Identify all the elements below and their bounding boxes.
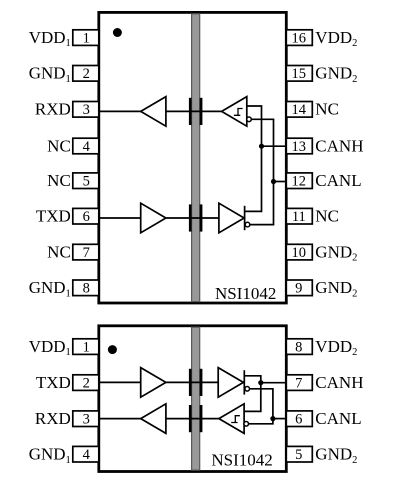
wire U2 RXD isolation crossing: [166, 418, 219, 420]
wire U2 receiver non-inverting input to node CANH: [244, 383, 261, 412]
wire U1 TXD isolation crossing: [166, 217, 219, 219]
U1 pin-1 marker dot: [113, 28, 122, 37]
U1 pin 8 box: [73, 280, 99, 297]
U2 isolation capacitor plates (RXD channel): [189, 405, 203, 432]
IC U2 body (NSI1042, 8-pin package): [99, 326, 286, 472]
svg-text:4: 4: [83, 139, 91, 155]
svg-text:2: 2: [83, 376, 90, 392]
svg-text:CANH: CANH: [315, 373, 363, 392]
junction node CANL (U2): [270, 416, 275, 421]
U1 pin 7 box: [73, 244, 99, 261]
svg-text:10: 10: [292, 245, 307, 261]
svg-text:16: 16: [292, 31, 307, 47]
wire U1 receiver inverting input to node CANL: [251, 119, 273, 181]
wire node CANH to U1 pin13: [262, 145, 287, 147]
U1 pin 2 box: [73, 66, 99, 83]
svg-text:TXD: TXD: [36, 373, 71, 392]
svg-text:8: 8: [83, 281, 90, 297]
U2 isolation barrier: [192, 327, 200, 470]
svg-text:NC: NC: [315, 207, 339, 226]
buffer U1 TXD input stage (left side): [141, 203, 166, 233]
svg-text:3: 3: [83, 412, 90, 428]
svg-text:GND2: GND2: [315, 278, 357, 299]
wire U1 driver non-inverting output to node CANH: [245, 146, 262, 211]
U2 pin 7 box: [286, 375, 312, 392]
U2 pin-1 marker dot: [108, 345, 117, 354]
U1 pin 13 box: [286, 138, 312, 155]
svg-text:4: 4: [83, 447, 91, 463]
svg-text:VDD1: VDD1: [29, 337, 71, 358]
inverting input bubble of U1 CAN receiver: [247, 117, 252, 122]
driver U1 CAN output driver: [219, 203, 244, 233]
IC U1 body (NSI1042, 16-pin package): [99, 12, 286, 303]
comparator U2 CAN receiver (Schmitt): [219, 404, 244, 434]
svg-text:14: 14: [292, 102, 307, 118]
U1 pin 1 box: [73, 30, 99, 47]
svg-text:TXD: TXD: [36, 207, 71, 226]
wire U2 pin3 RXD to receiver output: [99, 418, 141, 420]
buffer U2 TXD input stage (left side): [141, 368, 166, 398]
svg-text:5: 5: [295, 447, 302, 463]
wire U1 pin6 TXD to driver input: [99, 217, 141, 219]
junction node CANH (U1): [259, 144, 264, 149]
U2 pin 1 box: [73, 339, 99, 356]
U1 pin 9 box: [286, 280, 312, 297]
U1 pin 4 box: [73, 138, 99, 155]
svg-text:GND2: GND2: [315, 243, 357, 264]
U1 pin 3 box: [73, 102, 99, 119]
U1 pin 5 box: [73, 173, 99, 190]
svg-text:6: 6: [83, 209, 90, 225]
svg-text:NC: NC: [315, 100, 339, 119]
svg-text:NSI1042: NSI1042: [211, 450, 272, 469]
buffer U2 RXD output driver (left side): [141, 404, 166, 434]
U2 pin 5 box: [286, 446, 312, 463]
wire node CANH to U2 pin7: [261, 382, 287, 384]
U2 pin 4 box: [73, 446, 99, 463]
U2 CAN driver differential output bar: [243, 370, 245, 394]
svg-text:CANL: CANL: [315, 409, 361, 428]
wire U1 RXD isolation crossing: [166, 110, 222, 112]
U1 isolation capacitor plates (RXD channel): [189, 98, 203, 125]
U1 pin 11 box: [286, 208, 312, 225]
svg-text:GND1: GND1: [29, 278, 71, 299]
svg-text:13: 13: [292, 139, 307, 155]
svg-text:CANH: CANH: [315, 136, 363, 155]
svg-text:1: 1: [83, 31, 90, 47]
U2 isolation capacitor plates (TXD channel): [189, 369, 203, 396]
U1 pin 10 box: [286, 244, 312, 261]
svg-text:VDD2: VDD2: [315, 28, 357, 49]
wire U2 TXD isolation crossing: [166, 381, 218, 383]
svg-text:1: 1: [83, 340, 90, 356]
svg-text:RXD: RXD: [35, 100, 71, 119]
wire U2 driver non-inverting output to node CANH: [244, 376, 260, 383]
svg-text:8: 8: [295, 340, 302, 356]
U1 isolation barrier: [192, 14, 200, 302]
wire U1 pin3 RXD to receiver output: [99, 110, 141, 112]
svg-text:15: 15: [292, 66, 307, 82]
svg-text:NSI1042: NSI1042: [215, 284, 276, 303]
buffer U1 RXD output driver (left side): [141, 97, 166, 127]
U1 pin 6 box: [73, 208, 99, 225]
U1 pin 12 box: [286, 173, 312, 190]
svg-text:NC: NC: [47, 171, 71, 190]
inverting output bubble of U2 CAN driver: [245, 387, 250, 392]
driver U2 CAN output driver: [218, 368, 243, 398]
svg-text:RXD: RXD: [35, 409, 71, 428]
U1 pin 15 box: [286, 66, 312, 83]
svg-text:VDD2: VDD2: [315, 337, 357, 358]
svg-text:12: 12: [292, 174, 307, 190]
svg-text:GND1: GND1: [29, 64, 71, 85]
wire U1 receiver non-inverting input to node CANH: [247, 106, 262, 146]
U2 pin 2 box: [73, 375, 99, 392]
svg-text:9: 9: [295, 281, 302, 297]
svg-text:NC: NC: [47, 243, 71, 262]
svg-text:VDD1: VDD1: [29, 28, 71, 49]
U1 isolation capacitor plates (TXD channel): [189, 204, 203, 231]
U1 pin 14 box: [286, 102, 312, 119]
svg-text:GND1: GND1: [29, 445, 71, 466]
comparator U1 CAN receiver (Schmitt): [222, 97, 247, 127]
U2 pin 3 box: [73, 411, 99, 428]
inverting output bubble of U1 CAN driver: [245, 222, 250, 227]
wire U1 driver inverting output to node CANL: [250, 182, 274, 225]
svg-text:NC: NC: [47, 136, 71, 155]
svg-text:3: 3: [83, 102, 90, 118]
U1 CAN driver differential output bar: [244, 206, 246, 230]
svg-text:7: 7: [295, 376, 302, 392]
wire U2 receiver inverting input to node CANL: [249, 419, 273, 424]
wire U2 pin2 TXD to driver input: [99, 381, 141, 383]
svg-text:11: 11: [292, 209, 306, 225]
svg-text:5: 5: [83, 174, 90, 190]
svg-text:2: 2: [83, 66, 90, 82]
wire node CANL to U1 pin12: [274, 181, 287, 183]
junction node CANL (U1): [271, 179, 276, 184]
U1 pin 16 box: [286, 30, 312, 47]
inverting input bubble of U2 CAN receiver: [244, 422, 249, 427]
wire U2 driver inverting output to node CANL: [250, 389, 273, 419]
svg-text:GND2: GND2: [315, 445, 357, 466]
svg-text:6: 6: [295, 412, 302, 428]
U2 pin 8 box: [286, 339, 312, 356]
svg-text:GND2: GND2: [315, 64, 357, 85]
wire node CANL to U2 pin6: [273, 418, 286, 420]
svg-text:7: 7: [83, 245, 90, 261]
svg-text:CANL: CANL: [315, 171, 361, 190]
junction node CANH (U2): [258, 380, 263, 385]
U2 pin 6 box: [286, 411, 312, 428]
